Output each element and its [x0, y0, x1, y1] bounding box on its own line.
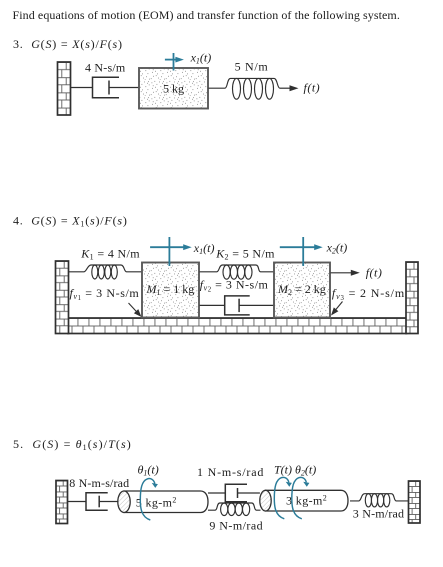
svg-text:5 N/m: 5 N/m [235, 60, 269, 74]
svg-text:4. G(S) = X1(s)/F(s): 4. G(S) = X1(s)/F(s) [13, 214, 128, 229]
displacement marker x1(t) problem 4 [168, 237, 170, 266]
spring K1 [69, 265, 143, 272]
spring 9 N-m/rad [208, 503, 261, 510]
svg-text:M1 = 1 kg: M1 = 1 kg [146, 282, 195, 297]
wire wall to damper [71, 87, 93, 89]
svg-text:1 N-m-s/rad: 1 N-m-s/rad [197, 465, 264, 479]
shaft cylinder J1 = 5 kg-m2 [124, 491, 208, 513]
svg-text:T(t) θ2(t): T(t) θ2(t) [274, 463, 316, 478]
svg-text:9 N-m/rad: 9 N-m/rad [209, 519, 263, 533]
svg-text:K1 = 4 N/m: K1 = 4 N/m [80, 247, 140, 262]
spring 3 N-m/rad [350, 494, 409, 501]
displacement marker x1(t) problem 3 [173, 53, 175, 71]
svg-text:x2(t): x2(t) [326, 240, 348, 255]
force arrow f(t) problem 3 [280, 87, 291, 89]
rotation arrow theta2(t) [292, 477, 307, 518]
damper 4 N-s/m [93, 77, 120, 98]
svg-text:Find equations of motion (EOM): Find equations of motion (EOM) and trans… [13, 8, 400, 22]
damper fv2 between masses [200, 304, 225, 306]
svg-text:K2 = 5 N/m: K2 = 5 N/m [215, 247, 275, 262]
svg-text:3. G(S) = X(s)/F(s): 3. G(S) = X(s)/F(s) [13, 37, 123, 51]
svg-text:f(t): f(t) [366, 266, 383, 280]
svg-text:8 N-m-s/rad: 8 N-m-s/rad [69, 476, 129, 490]
mass M1 = 1 kg [142, 263, 199, 318]
wall W5L (problem 5 left) [56, 481, 68, 524]
spring 5 N/m [209, 78, 281, 88]
floor (problem 4) [68, 318, 407, 334]
damper 1 N-m-s/rad [208, 492, 225, 494]
damper 8 N-m-s/rad [68, 501, 87, 503]
force arrow f(t) problem 4 [331, 272, 353, 274]
displacement marker x2(t) [302, 237, 304, 266]
svg-text:5 kg-m2: 5 kg-m2 [136, 495, 177, 510]
pointer arrow fv1 to floor contact [129, 303, 139, 314]
wall W4L (problem 4 left) [56, 261, 69, 334]
mass M2 = 2 kg [274, 263, 330, 318]
svg-text:4 N-s/m: 4 N-s/m [85, 61, 126, 75]
wall W4R (problem 4 right) [406, 262, 418, 334]
svg-text:3 N-m/rad: 3 N-m/rad [353, 507, 404, 521]
spring K2 [200, 265, 275, 272]
rotation arrow theta1(t) [140, 479, 155, 520]
svg-text:f(t): f(t) [304, 81, 321, 95]
mass 5 kg [139, 68, 208, 109]
wall W5R (problem 5 right) [409, 481, 421, 523]
svg-text:x1(t): x1(t) [193, 241, 215, 256]
svg-text:x1(t): x1(t) [190, 51, 212, 66]
rotation arrow T(t) [274, 477, 289, 518]
svg-text:5. G(S) = θ1(s)/T(s): 5. G(S) = θ1(s)/T(s) [13, 437, 132, 452]
wall W3 (problem 3 left anchor) [58, 62, 71, 115]
svg-text:θ1(t): θ1(t) [138, 463, 159, 478]
pointer arrow fv3 to floor contact [334, 302, 343, 313]
svg-text:M2 = 2 kg: M2 = 2 kg [277, 282, 326, 297]
shaft cylinder J2 = 3 kg-m2 [266, 490, 349, 511]
svg-text:5 kg: 5 kg [163, 82, 184, 96]
